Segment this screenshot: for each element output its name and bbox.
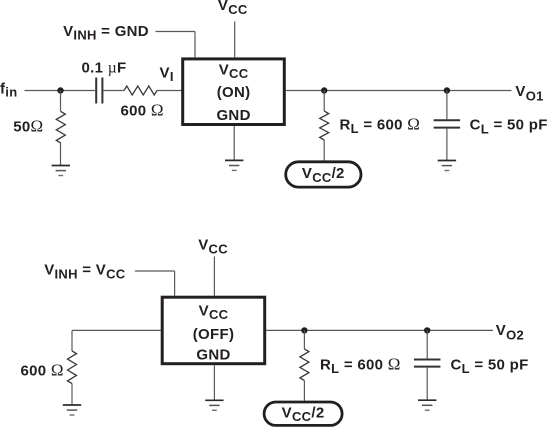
svg-text:(OFF): (OFF) (193, 326, 234, 343)
svg-text:VI: VI (160, 64, 174, 84)
svg-text:GND: GND (216, 107, 250, 124)
svg-text:RL = 600 Ω: RL = 600 Ω (320, 354, 401, 376)
svg-text:VCC: VCC (219, 62, 249, 82)
svg-text:VCC: VCC (199, 302, 229, 322)
svg-text:50Ω: 50Ω (13, 116, 43, 135)
svg-text:VO2: VO2 (496, 322, 524, 343)
svg-text:(ON): (ON) (217, 84, 251, 101)
svg-text:GND: GND (196, 347, 230, 364)
svg-text:VO1: VO1 (515, 83, 543, 104)
svg-text:VCC/2: VCC/2 (302, 165, 345, 185)
svg-text:VCC/2: VCC/2 (282, 404, 325, 424)
svg-text:CL = 50 pF: CL = 50 pF (470, 117, 548, 137)
svg-text:VCC: VCC (198, 236, 228, 256)
svg-text:VINH = VCC: VINH = VCC (44, 262, 126, 282)
svg-text:0.1 µF: 0.1 µF (82, 59, 127, 76)
svg-text:600 Ω: 600 Ω (121, 101, 164, 120)
svg-text:600 Ω: 600 Ω (21, 360, 64, 379)
svg-text:VCC: VCC (218, 0, 248, 17)
svg-text:VINH = GND: VINH = GND (63, 23, 149, 43)
svg-text:RL = 600 Ω: RL = 600 Ω (340, 114, 421, 136)
svg-text:fin: fin (0, 80, 17, 99)
svg-text:CL = 50 pF: CL = 50 pF (451, 356, 529, 376)
